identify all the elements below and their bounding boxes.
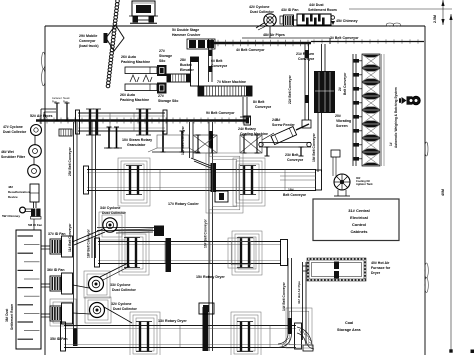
cyclone 32 duct to dryer [104, 307, 132, 323]
dimension extension line top [349, 8, 452, 10]
svg-text:Settlement Room: Settlement Room [308, 8, 337, 12]
svg-text:5W Chimney: 5W Chimney [2, 214, 20, 218]
air pipe riser to cyclone 42 [269, 27, 271, 38]
belt conveyor 23 [259, 142, 311, 144]
svg-text:Cabinets: Cabinets [351, 229, 369, 234]
svg-text:20#: 20# [335, 114, 341, 118]
cyclone 33 brackets [84, 271, 110, 298]
granulator 10 end caps [76, 110, 80, 134]
dust settlement room 44 baffle box [297, 14, 331, 25]
svg-text:26# Auto: 26# Auto [120, 93, 136, 97]
cyclone dust collector 33 [89, 277, 104, 292]
mobile conveyor 29 frame diamond [106, 25, 124, 51]
bucket elevator 28 feed conveyor [167, 74, 190, 82]
air pipe drop right [329, 38, 331, 44]
fan 37 duct to wall [41, 245, 50, 247]
svg-text:Scrubber Filter: Scrubber Filter [1, 155, 26, 159]
chimney 45 [331, 16, 335, 20]
vibrating screen 20 truss tower [362, 54, 380, 68]
svg-text:5# Double Stage: 5# Double Stage [172, 28, 199, 32]
belt conveyor 3 line [311, 41, 424, 43]
mobile conveyor 29 drive block [104, 33, 108, 43]
belt conveyor 18 feed to dryer [97, 227, 154, 229]
rotary dryer 13 support brackets right [231, 312, 261, 355]
dryer 15 right brackets [228, 238, 254, 268]
vibrating screen 20 left rails [352, 54, 354, 166]
agitator flywheel 30 [334, 174, 350, 190]
svg-text:26# Auto: 26# Auto [121, 55, 137, 59]
dust settlement room 38 [16, 230, 41, 349]
svg-text:3# Belt Conveyor: 3# Belt Conveyor [330, 36, 359, 40]
belt conveyor 6 vertical [208, 39, 210, 82]
door arc right wall [425, 142, 428, 156]
steam rotary granulator 10 drum [78, 112, 165, 114]
cyclone dust collector 32 [90, 303, 105, 318]
svg-text:Packing Machine: Packing Machine [121, 60, 150, 64]
svg-text:Screen: Screen [336, 124, 348, 128]
door arc top wall [386, 23, 393, 26]
svg-text:Granulator: Granulator [127, 143, 146, 147]
rotary dryer 13 support brackets left [130, 312, 160, 355]
svg-text:37# ID Fan: 37# ID Fan [48, 232, 66, 236]
svg-text:Silo: Silo [159, 59, 165, 63]
belt conveyor 9 thick line [36, 119, 248, 122]
door arc left wall [42, 52, 46, 69]
belt conveyor 25-11 vertical [73, 122, 75, 345]
svg-text:Desulfurization: Desulfurization [8, 190, 30, 194]
trestle box B [240, 135, 262, 153]
svg-text:Conveyor: Conveyor [287, 158, 304, 162]
svg-text:Conveyor: Conveyor [211, 64, 228, 68]
svg-text:6# Belt: 6# Belt [211, 59, 223, 63]
svg-text:Dust Collector: Dust Collector [113, 307, 138, 311]
cyclone 33 duct up [100, 263, 128, 277]
ID fan 36 [62, 273, 73, 294]
svg-text:7# Mixer Machine: 7# Mixer Machine [217, 80, 246, 84]
svg-text:Belt Conveyor: Belt Conveyor [343, 72, 347, 95]
svg-text:Elevator: Elevator [180, 68, 194, 72]
dryer 15 feed chute dark [166, 238, 172, 272]
packing scale marks M [130, 75, 139, 82]
svg-text:Control: Control [352, 222, 366, 227]
hammer crusher 5 machine [187, 39, 215, 49]
dryer 15 feed box [154, 226, 164, 237]
cyclone dust collector 34 [103, 218, 117, 232]
svg-text:8# Belt: 8# Belt [253, 100, 265, 104]
svg-text:28#: 28# [180, 58, 186, 62]
belt conveyor 4 thick line [214, 42, 311, 44]
cyclone 33 duct to fan 36 [73, 285, 89, 288]
svg-text:Vibrating: Vibrating [336, 119, 351, 123]
truck wheels [133, 17, 139, 23]
svg-text:27#: 27# [159, 49, 165, 53]
duct fan to baffle [294, 19, 298, 21]
hot air pipe 41 [302, 262, 304, 340]
svg-text:29# Mobile: 29# Mobile [79, 34, 97, 38]
return conveyor 21 vertical [321, 44, 323, 71]
svg-text:44# Dust: 44# Dust [309, 3, 324, 7]
svg-text:48# Air Pipes: 48# Air Pipes [263, 33, 285, 37]
svg-text:11# Belt Conveyor: 11# Belt Conveyor [68, 223, 72, 252]
svg-text:Dust Collector: Dust Collector [102, 211, 127, 215]
svg-text:Conveyor: Conveyor [79, 39, 96, 43]
svg-text:52# Air Pipes: 52# Air Pipes [30, 114, 52, 118]
svg-text:48#: 48# [8, 185, 13, 189]
svg-text:42# Cyclone: 42# Cyclone [249, 5, 269, 9]
belt conveyor 14 elbow [278, 333, 288, 344]
desulfurization device 48 column [30, 184, 39, 202]
rotary cooler 17 support brackets right [233, 158, 265, 206]
svg-text:18#: 18# [288, 188, 294, 192]
ID fan 35 [62, 303, 73, 324]
svg-text:Storage Silo: Storage Silo [158, 99, 178, 103]
svg-text:Packing Machine: Packing Machine [120, 98, 149, 102]
belt conveyor 19 vertical [317, 113, 319, 172]
svg-text:23# Belt: 23# Belt [285, 153, 299, 157]
svg-text:41# Hot Air Pipe: 41# Hot Air Pipe [297, 281, 301, 304]
svg-text:33# Cyclone: 33# Cyclone [110, 283, 130, 287]
belt conveyor 22 elbow [302, 120, 311, 128]
svg-text:12# Belt Conveyor: 12# Belt Conveyor [181, 126, 185, 155]
svg-text:Settlement Room: Settlement Room [10, 304, 14, 330]
pipe desulfurization to room [33, 219, 35, 230]
belt conveyor 11 bottom chute [73, 328, 78, 346]
rotary coating machine 24 drum [271, 127, 297, 145]
rotary dryer 15 end caps [95, 238, 100, 267]
svg-text:19# Belt Conveyor: 19# Belt Conveyor [312, 133, 316, 162]
cyclone dust collector 42 [264, 14, 276, 26]
dryer 13 right elbow [297, 333, 306, 345]
svg-text:Furnace for: Furnace for [371, 266, 391, 270]
svg-text:Storage: Storage [159, 54, 172, 58]
hot air pipe elbow [306, 340, 314, 349]
rotary cooler 17 support brackets left [118, 158, 150, 206]
svg-text:17# Rotary Cooler: 17# Rotary Cooler [168, 202, 199, 206]
storage silo 27 lower bin [157, 83, 167, 94]
rotary dryer 13 end caps [61, 322, 66, 351]
svg-text:27#: 27# [158, 94, 164, 98]
svg-text:13# Rotary Dryer: 13# Rotary Dryer [158, 319, 187, 323]
dryer 13 feed chute dark [203, 307, 209, 351]
mobile conveyor 29 chain [116, 0, 120, 3]
svg-text:Coal: Coal [345, 321, 353, 325]
svg-text:35# ID Fan: 35# ID Fan [50, 337, 68, 341]
plant wall top [45, 25, 425, 27]
svg-text:1#: 1# [389, 142, 393, 146]
svg-text:4# Belt Conveyor: 4# Belt Conveyor [236, 48, 265, 52]
cyclone 32 brackets [85, 297, 111, 323]
svg-text:40M: 40M [441, 189, 445, 196]
cyclone 32 duct to fan 35 [73, 313, 90, 314]
svg-text:16# Belt Conveyor: 16# Belt Conveyor [204, 219, 208, 248]
dimension mark bottom right edge [471, 350, 474, 354]
cyclone 34 duct to fan [72, 229, 103, 242]
belt conveyor 22 vertical [304, 44, 306, 120]
dimension line top 2.5M [442, 0, 444, 25]
svg-text:24# Rotary: 24# Rotary [238, 127, 256, 131]
svg-text:Dust Collector: Dust Collector [112, 288, 137, 292]
dimension line right 40M [450, 14, 452, 351]
ID fan 43 [280, 16, 283, 24]
svg-text:24B#: 24B# [272, 118, 280, 122]
rotary dryer 13 drum [64, 325, 296, 327]
svg-text:Belt Conveyor: Belt Conveyor [283, 193, 307, 197]
svg-text:40# Hot Air: 40# Hot Air [371, 261, 390, 265]
rotary dryer 15 support brackets left [119, 231, 149, 275]
svg-text:5M ID Fan: 5M ID Fan [28, 223, 42, 227]
svg-text:Dryer: Dryer [371, 271, 381, 275]
fan 35 duct to wall [41, 313, 50, 315]
hoist glyph [399, 98, 401, 103]
packing machine 26 lower conveyor [125, 84, 157, 91]
plant wall left [44, 26, 46, 355]
cooler feed chute dark [211, 163, 217, 192]
wet scrubber filter 46 upper drum [29, 145, 42, 158]
svg-text:46# Wet: 46# Wet [1, 150, 15, 154]
svg-text:Dust Collector: Dust Collector [3, 130, 27, 134]
svg-text:Hammer Crusher: Hammer Crusher [172, 33, 201, 37]
belt conveyor 12 elbow to cooler [191, 158, 211, 166]
flywheel stand [337, 190, 339, 196]
ID fan 37 [62, 236, 73, 257]
packing machine 26 upper conveyor [125, 67, 157, 74]
svg-text:34# Cyclone: 34# Cyclone [100, 206, 120, 210]
air pipe riser 52 [40, 109, 42, 124]
svg-text:(load truck): (load truck) [79, 44, 99, 48]
steam heater box [59, 129, 72, 136]
rotary dryer 15 drum [98, 241, 281, 243]
svg-text:Automatic Weighing & Batching: Automatic Weighing & Batching System [394, 87, 398, 148]
svg-text:31# Central: 31# Central [348, 208, 370, 213]
belt conveyor 12 vertical [189, 122, 191, 158]
svg-text:9# Belt Conveyor: 9# Belt Conveyor [206, 111, 235, 115]
hot air furnace 40 [308, 259, 365, 280]
svg-text:25# Belt Conveyor: 25# Belt Conveyor [68, 147, 72, 176]
svg-text:47# Cyclone: 47# Cyclone [3, 125, 23, 129]
belt conveyor 23 stands [266, 147, 268, 156]
chimney 5W [20, 207, 26, 213]
ID fan 5M [31, 209, 35, 217]
wet scrubber filter 46 lower drum [28, 165, 41, 178]
trestle box A [193, 135, 217, 153]
mixer machine 7 [198, 86, 252, 96]
svg-text:Storage Area: Storage Area [337, 328, 361, 332]
screw feeder 24B screw [296, 124, 309, 130]
granulator 10 A-frame support [162, 131, 164, 152]
belt conveyor 14 vertical [287, 258, 289, 333]
svg-text:Device: Device [8, 195, 18, 199]
svg-text:14# Belt Conveyor: 14# Belt Conveyor [282, 282, 286, 311]
svg-text:Electrical: Electrical [350, 215, 368, 220]
belt conveyor 2 elevator dark block [314, 71, 335, 113]
door arc right wall lower [425, 263, 429, 278]
svg-text:38# Dust: 38# Dust [5, 308, 9, 322]
cyclone dust collector 47 [31, 125, 42, 136]
svg-text:36# ID Fan: 36# ID Fan [47, 268, 65, 272]
svg-text:Screw Feeder: Screw Feeder [272, 123, 295, 127]
truck [132, 1, 155, 16]
svg-text:18# Belt Conveyor: 18# Belt Conveyor [87, 229, 91, 258]
cooler outlet conveyor [280, 175, 316, 177]
bucket elevator 28 tower [191, 57, 199, 86]
plant wall right [424, 26, 426, 355]
rotary cooler 17 end caps [84, 166, 89, 194]
cooler discharge box [215, 191, 228, 202]
svg-text:22# Belt Conveyor: 22# Belt Conveyor [288, 75, 292, 104]
belt conveyor 8 chute [242, 97, 244, 117]
central electrical control cabinets 31 [313, 199, 399, 241]
cyclone 34 duct to feed box [116, 229, 153, 230]
granulator 10 trestle [108, 127, 110, 148]
belt conveyor 9 head pulley [244, 116, 251, 125]
rotary dryer 13 left end brackets [50, 299, 76, 326]
svg-text:32# Cyclone: 32# Cyclone [111, 302, 131, 306]
svg-text:43# ID Fan: 43# ID Fan [281, 8, 299, 12]
belt conveyor 18 vertical [91, 121, 93, 258]
pipe cyclone to scrubber [34, 136, 36, 145]
storage silo 27 upper bin [157, 65, 167, 76]
svg-text:45# Chimney: 45# Chimney [336, 19, 358, 23]
belt conveyor 16 vertical [208, 122, 210, 351]
svg-text:10# Steam Rotary: 10# Steam Rotary [122, 138, 152, 142]
rotary dryer 15 support brackets right [232, 231, 262, 275]
cyclone 42 outlet elbow [256, 23, 264, 28]
svg-text:2#: 2# [338, 87, 342, 91]
fan 36 duct to wall [41, 283, 50, 285]
svg-text:Conveyor: Conveyor [255, 105, 272, 109]
pump box 30 [331, 150, 340, 157]
svg-text:2.5M: 2.5M [433, 15, 437, 23]
cyclone 34 brackets [99, 212, 125, 240]
air pipes 48 line [242, 37, 330, 39]
svg-text:15# Rotary Dryer: 15# Rotary Dryer [196, 275, 225, 279]
rotary cooler 17 drum [87, 169, 316, 171]
svg-text:Agitator Tank: Agitator Tank [356, 182, 373, 186]
